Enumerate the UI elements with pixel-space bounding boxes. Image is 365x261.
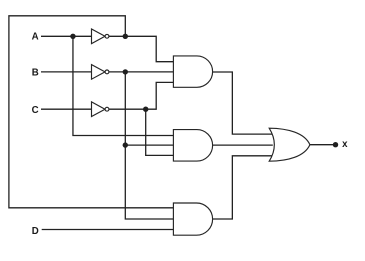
svg-text:x: x — [342, 139, 348, 150]
svg-text:D: D — [32, 226, 39, 237]
svg-text:B: B — [32, 68, 39, 79]
svg-text:A: A — [32, 31, 39, 42]
svg-text:C: C — [32, 105, 39, 116]
